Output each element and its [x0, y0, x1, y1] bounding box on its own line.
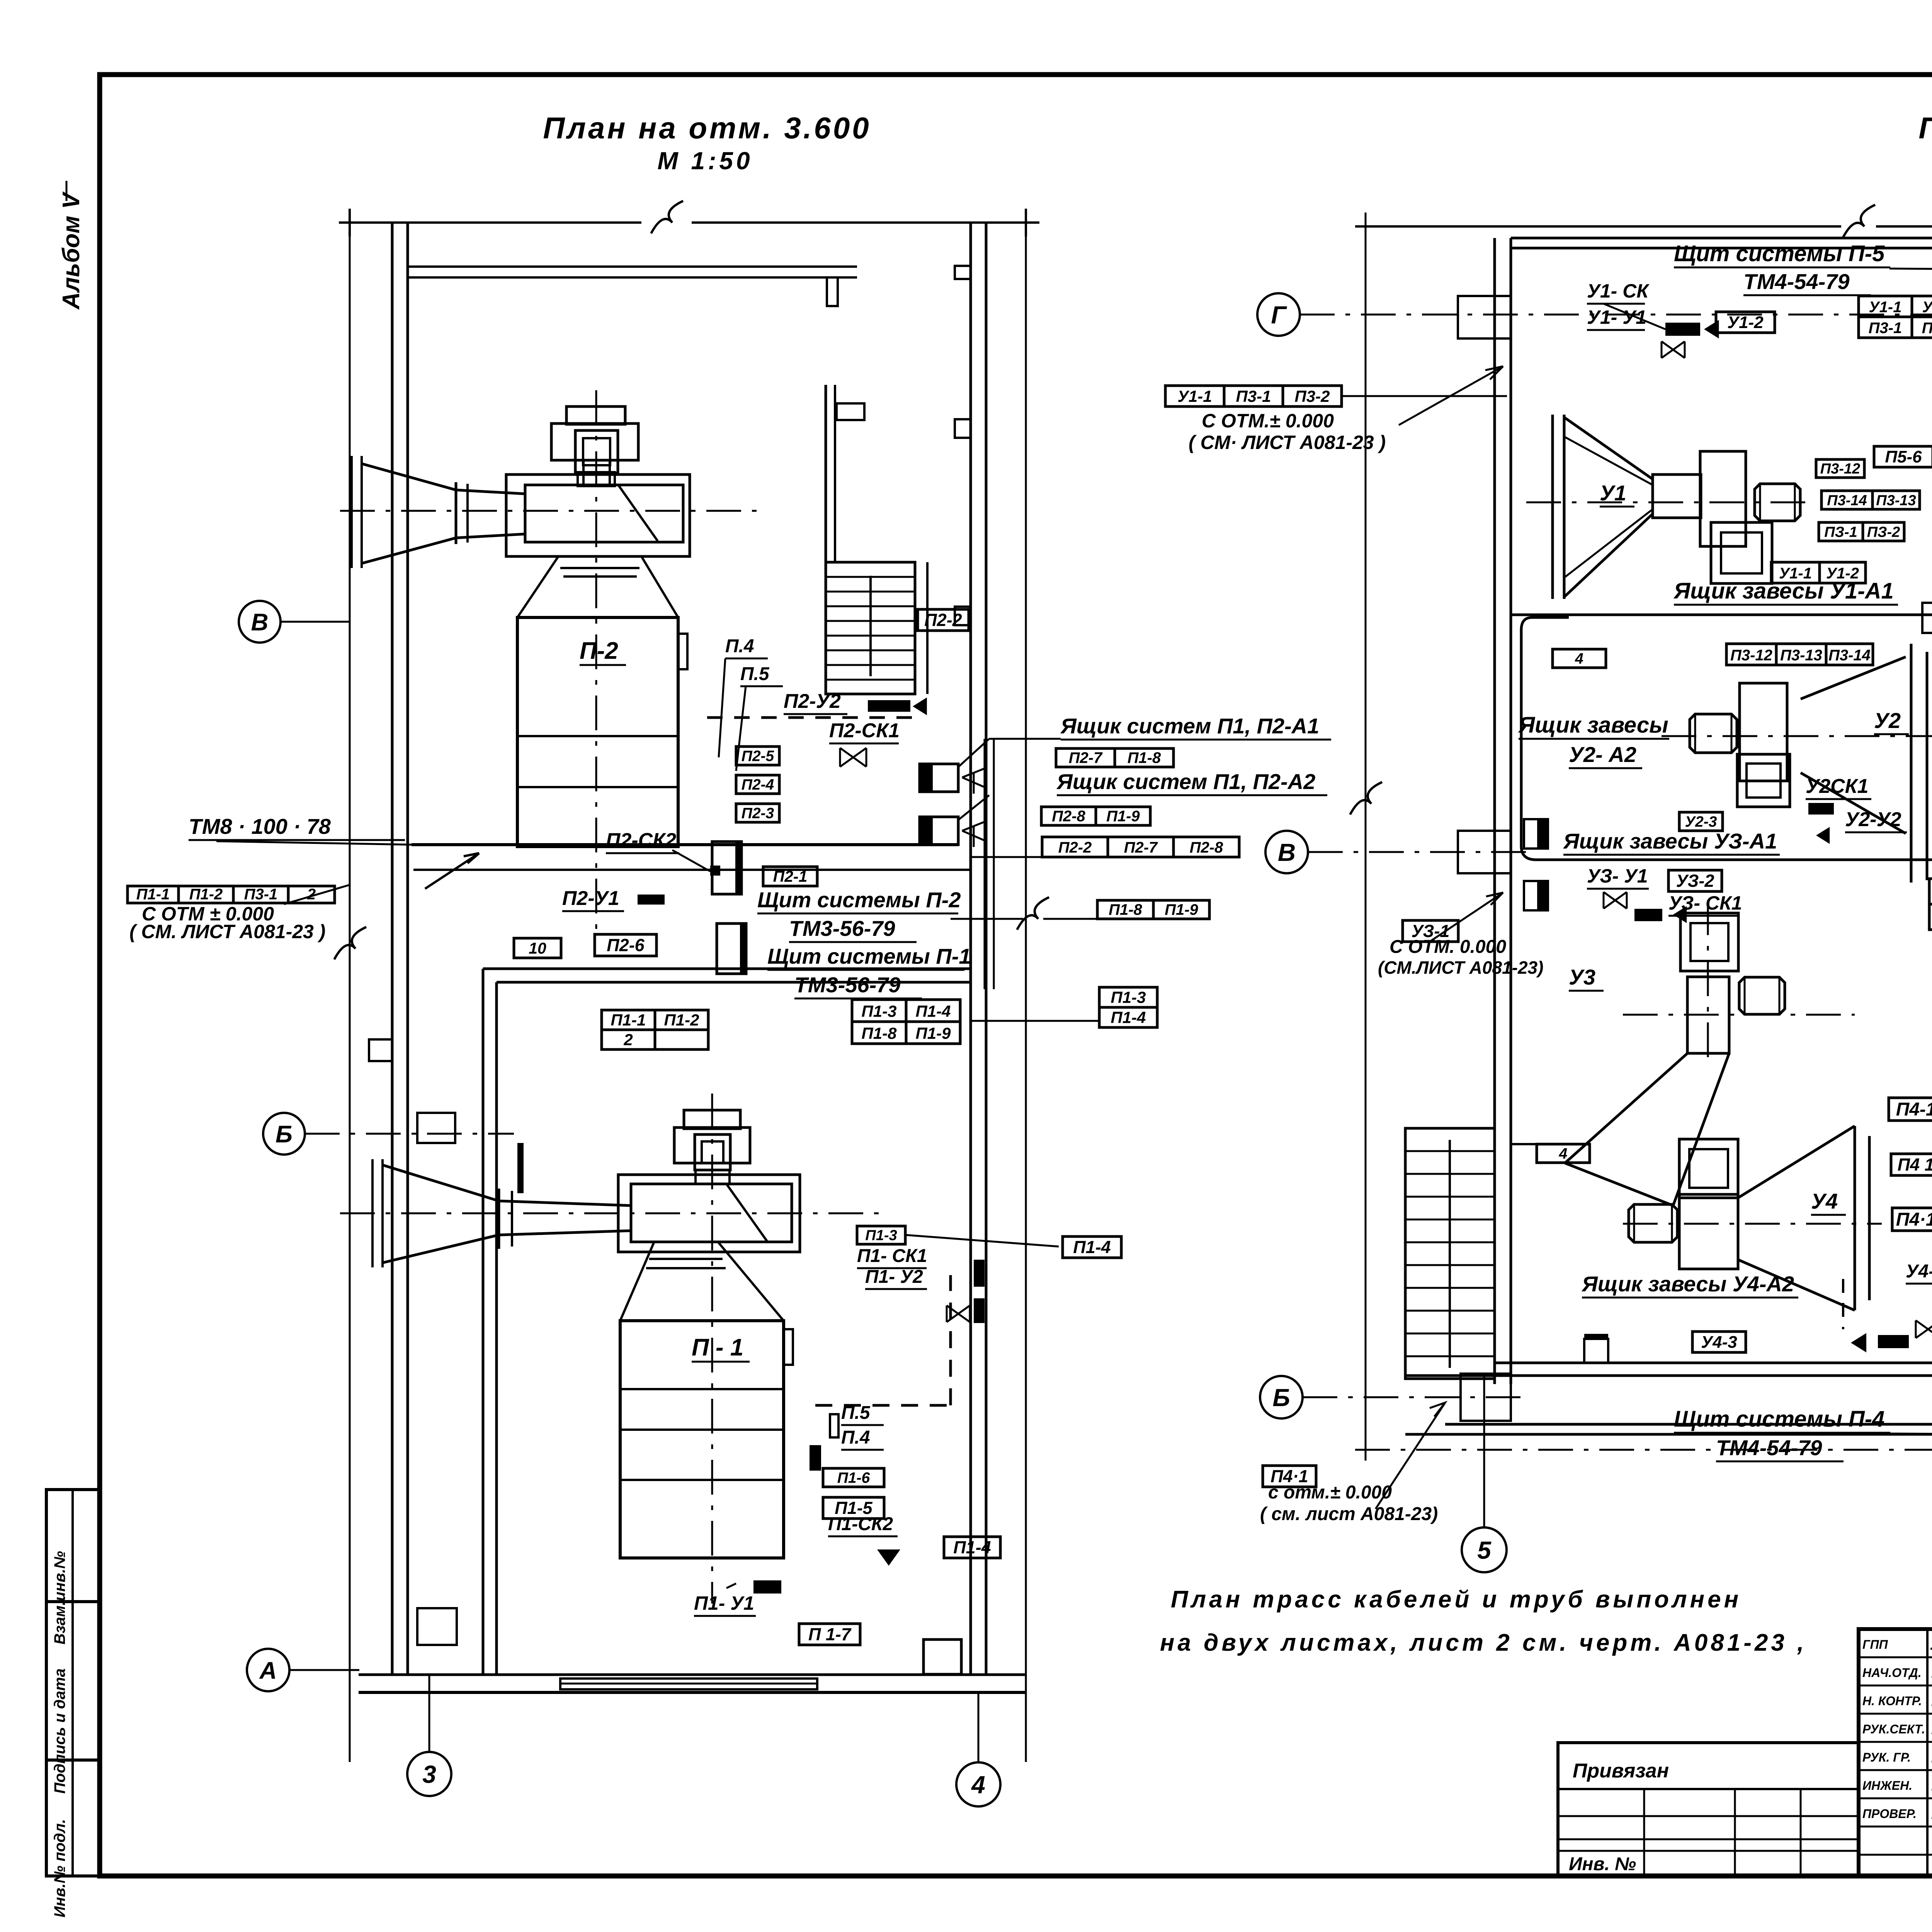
svg-text:4: 4 — [1575, 650, 1583, 667]
svg-text:П3-12: П3-12 — [1730, 647, 1772, 664]
svg-text:П1-4: П1-4 — [1073, 1237, 1111, 1257]
svg-text:П3-13: П3-13 — [1876, 492, 1916, 509]
svg-text:П1-1: П1-1 — [136, 886, 170, 903]
svg-text:П1-1: П1-1 — [611, 1011, 646, 1029]
svg-text:У2- А2: У2- А2 — [1569, 742, 1636, 767]
svg-text:План трасс кабелей и труб: План трасс кабелей и труб выполнен — [1171, 1586, 1742, 1613]
svg-text:С ОТМ.± 0.000: С ОТМ.± 0.000 — [1202, 410, 1334, 432]
svg-text:М 1:50: М 1:50 — [657, 147, 753, 175]
svg-text:П3-1: П3-1 — [244, 886, 278, 903]
svg-text:П1-2: П1-2 — [664, 1011, 699, 1029]
svg-text:Ящик завесы: Ящик завесы — [1518, 713, 1668, 738]
svg-text:П2-7: П2-7 — [1069, 749, 1103, 766]
svg-text:П 1-7: П 1-7 — [808, 1624, 852, 1644]
svg-text:П4-10: П4-10 — [1896, 1099, 1932, 1120]
svg-text:П1-3: П1-3 — [1111, 988, 1146, 1007]
svg-text:У2СК1: У2СК1 — [1806, 775, 1869, 798]
svg-text:П2-8: П2-8 — [1052, 808, 1085, 825]
svg-text:П.4: П.4 — [841, 1427, 870, 1448]
svg-text:П1- У1: П1- У1 — [694, 1592, 754, 1614]
svg-text:П-2: П-2 — [580, 638, 618, 664]
svg-text:С ОТМ. 0.000: С ОТМ. 0.000 — [1389, 937, 1506, 957]
svg-text:П1- У2: П1- У2 — [865, 1267, 923, 1287]
svg-text:Щит системы П-2: Щит системы П-2 — [757, 888, 961, 912]
svg-text:П2-8: П2-8 — [1190, 839, 1223, 856]
svg-text:Инв.№ подл.: Инв.№ подл. — [51, 1819, 68, 1918]
svg-text:П2-СК1: П2-СК1 — [829, 719, 900, 742]
svg-text:ПЗ-2: ПЗ-2 — [1867, 524, 1900, 540]
svg-text:П.5: П.5 — [740, 664, 770, 684]
svg-text:10: 10 — [529, 939, 546, 957]
svg-text:П1-3: П1-3 — [862, 1002, 897, 1020]
svg-text:ГПП: ГПП — [1862, 1638, 1888, 1651]
svg-text:3: 3 — [422, 1760, 436, 1788]
svg-text:У1- СК: У1- СК — [1587, 280, 1650, 302]
svg-text:У1-1: У1-1 — [1177, 387, 1212, 405]
svg-text:П.4: П.4 — [725, 636, 754, 656]
svg-text:Ящик завесы У1-А1: Ящик завесы У1-А1 — [1673, 578, 1894, 604]
svg-text:П4·12: П4·12 — [1896, 1209, 1932, 1230]
svg-text:Ящик завесы У4-А2: Ящик завесы У4-А2 — [1581, 1272, 1794, 1296]
svg-text:П1-8: П1-8 — [862, 1024, 897, 1042]
svg-text:П1-СК2: П1-СК2 — [828, 1514, 893, 1534]
svg-text:У1-1: У1-1 — [1869, 299, 1902, 316]
svg-text:П1-2: П1-2 — [189, 886, 223, 903]
svg-text:П2-СК2: П2-СК2 — [606, 829, 676, 852]
svg-text:Б: Б — [1272, 1384, 1290, 1412]
svg-text:П1-8: П1-8 — [1128, 749, 1161, 766]
svg-text:П2-7: П2-7 — [1124, 839, 1158, 856]
svg-text:ТМ8 · 100 · 78: ТМ8 · 100 · 78 — [189, 814, 331, 838]
svg-text:П2-У2: П2-У2 — [784, 690, 841, 713]
svg-text:2: 2 — [623, 1031, 633, 1049]
svg-text:Щит системы П-1: Щит системы П-1 — [767, 944, 971, 968]
svg-text:5: 5 — [1477, 1536, 1492, 1564]
svg-text:План на отм. 3.600: План на отм. 3.600 — [1918, 111, 1932, 145]
svg-text:Альбом V: Альбом V — [58, 191, 85, 310]
svg-text:П1- СК1: П1- СК1 — [857, 1246, 927, 1266]
svg-text:П1-3: П1-3 — [865, 1228, 897, 1244]
svg-text:( см. лист А081-23): ( см. лист А081-23) — [1260, 1504, 1438, 1524]
svg-text:на двух листах, лист 2 см: на двух листах, лист 2 см. черт. А081-23… — [1160, 1629, 1807, 1656]
svg-text:П5-6: П5-6 — [1885, 447, 1922, 466]
svg-text:Инв. №: Инв. № — [1569, 1854, 1636, 1874]
svg-text:ТМ4-54-79: ТМ4-54-79 — [1743, 269, 1850, 294]
svg-text:Привязан: Привязан — [1573, 1760, 1669, 1782]
svg-text:(СМ.ЛИСТ А081-23): (СМ.ЛИСТ А081-23) — [1378, 957, 1543, 978]
svg-text:План на отм. 3.600: План на отм. 3.600 — [543, 111, 871, 145]
svg-text:4: 4 — [971, 1771, 985, 1799]
svg-text:Ящик завесы УЗ-А1: Ящик завесы УЗ-А1 — [1563, 829, 1777, 853]
svg-text:УЗ- У1: УЗ- У1 — [1587, 865, 1648, 887]
svg-text:П3-1: П3-1 — [1236, 387, 1271, 405]
svg-text:ПРОВЕР.: ПРОВЕР. — [1862, 1807, 1917, 1821]
svg-text:П1-8: П1-8 — [1109, 901, 1142, 918]
svg-text:П1-9: П1-9 — [1106, 808, 1140, 825]
svg-text:У2: У2 — [1874, 708, 1901, 733]
svg-text:П2-4: П2-4 — [742, 776, 774, 793]
svg-text:4: 4 — [1559, 1145, 1568, 1162]
svg-text:П3-12: П3-12 — [1820, 461, 1860, 477]
svg-text:Подпись и дата: Подпись и дата — [51, 1668, 68, 1794]
svg-text:( СМ. ЛИСТ А081-23 ): ( СМ. ЛИСТ А081-23 ) — [129, 921, 325, 942]
svg-text:П3-2: П3-2 — [1295, 387, 1330, 405]
svg-text:П2-6: П2-6 — [607, 935, 645, 955]
svg-text:П.5: П.5 — [841, 1403, 871, 1423]
svg-text:П3-13: П3-13 — [1780, 647, 1822, 664]
svg-text:УЗ-2: УЗ-2 — [1676, 871, 1714, 891]
svg-text:А: А — [259, 1657, 277, 1684]
svg-text:П2-У1: П2-У1 — [562, 887, 619, 910]
svg-text:П1-4: П1-4 — [953, 1537, 991, 1557]
svg-text:П1-9: П1-9 — [1165, 901, 1198, 918]
svg-text:П2-2: П2-2 — [924, 610, 962, 630]
svg-text:У2-У2: У2-У2 — [1845, 808, 1901, 831]
svg-text:ПЗ-1: ПЗ-1 — [1824, 524, 1857, 540]
svg-text:П4 11: П4 11 — [1898, 1155, 1932, 1175]
svg-text:Ящик систем П1, П2-А1: Ящик систем П1, П2-А1 — [1060, 714, 1319, 738]
svg-text:П - 1: П - 1 — [692, 1334, 743, 1361]
svg-text:РУК.СЕКТ.: РУК.СЕКТ. — [1862, 1722, 1925, 1736]
svg-text:РУК. ГР.: РУК. ГР. — [1862, 1750, 1911, 1764]
svg-text:ТМ4-54-79: ТМ4-54-79 — [1716, 1435, 1822, 1460]
svg-text:В: В — [1278, 838, 1296, 866]
svg-text:П3-1: П3-1 — [1869, 320, 1902, 337]
svg-text:П1-4: П1-4 — [916, 1002, 951, 1020]
svg-text:ИНЖЕН.: ИНЖЕН. — [1862, 1779, 1912, 1793]
svg-text:У3: У3 — [1569, 965, 1595, 989]
svg-text:Б: Б — [276, 1121, 293, 1148]
svg-text:У4-3: У4-3 — [1701, 1333, 1737, 1352]
svg-text:ТМ3-56-79: ТМ3-56-79 — [789, 916, 895, 940]
svg-text:УЗ- СК1: УЗ- СК1 — [1668, 892, 1742, 914]
svg-text:У1-2: У1-2 — [1922, 299, 1932, 316]
svg-text:П1-4: П1-4 — [1111, 1009, 1146, 1027]
svg-text:Ящик систем П1, П2-А2: Ящик систем П1, П2-А2 — [1056, 769, 1315, 794]
svg-text:П3-2: П3-2 — [1922, 320, 1932, 337]
svg-text:( СМ· ЛИСТ А081-23 ): ( СМ· ЛИСТ А081-23 ) — [1189, 432, 1386, 453]
svg-text:У4: У4 — [1811, 1189, 1838, 1213]
svg-text:П1-9: П1-9 — [916, 1024, 951, 1042]
svg-text:Щит системы П-5: Щит системы П-5 — [1674, 241, 1885, 266]
svg-text:НАЧ.ОТД.: НАЧ.ОТД. — [1862, 1666, 1922, 1680]
svg-text:Г: Г — [1271, 301, 1287, 329]
svg-text:П2-5: П2-5 — [742, 748, 775, 764]
svg-text:ТМ3-56-79: ТМ3-56-79 — [794, 973, 901, 997]
svg-text:Щит системы П-4: Щит системы П-4 — [1674, 1406, 1884, 1432]
svg-text:У1-2: У1-2 — [1727, 313, 1764, 332]
svg-text:Н. КОНТР.: Н. КОНТР. — [1862, 1694, 1922, 1708]
svg-text:В: В — [251, 609, 269, 636]
svg-text:П3-14: П3-14 — [1828, 647, 1871, 664]
svg-text:У2-3: У2-3 — [1685, 813, 1717, 830]
svg-text:П3-14: П3-14 — [1827, 492, 1867, 509]
svg-text:П1-6: П1-6 — [837, 1469, 870, 1486]
svg-text:Взам.инв.№: Взам.инв.№ — [51, 1551, 68, 1645]
svg-text:с отм.± 0.000: с отм.± 0.000 — [1268, 1482, 1392, 1503]
svg-text:П2-2: П2-2 — [1058, 839, 1092, 856]
svg-text:У4- СК: У4- СК — [1906, 1261, 1932, 1282]
svg-text:П2-3: П2-3 — [742, 805, 774, 821]
